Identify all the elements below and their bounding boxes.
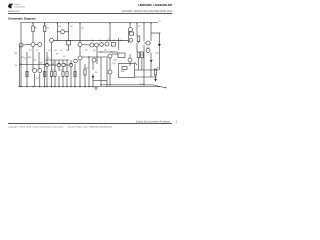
- svg-text:1k: 1k: [108, 38, 110, 40]
- svg-text:R4: R4: [60, 69, 62, 71]
- svg-text:Copyright © 2012–2013, Texas I: Copyright © 2012–2013, Texas Instruments…: [8, 126, 64, 129]
- svg-text:ESD: ESD: [121, 71, 126, 73]
- svg-text:Q8: Q8: [34, 60, 37, 62]
- svg-text:Q4: Q4: [54, 50, 57, 52]
- svg-text:1k: 1k: [138, 26, 140, 28]
- svg-text:Schematic Diagram: Schematic Diagram: [8, 16, 36, 20]
- svg-text:C1: C1: [60, 50, 62, 52]
- svg-text:Q1: Q1: [29, 50, 32, 52]
- svg-text:R8: R8: [157, 68, 159, 70]
- svg-text:D1: D1: [95, 72, 97, 74]
- svg-text:Instruments: Instruments: [14, 5, 25, 8]
- svg-text:R7: R7: [56, 54, 58, 56]
- svg-text:Q9: Q9: [113, 63, 116, 65]
- svg-text:x: x: [46, 24, 47, 26]
- svg-text:B1: B1: [81, 28, 83, 30]
- svg-text:Q13: Q13: [155, 52, 159, 54]
- svg-text:www.ti.com: www.ti.com: [8, 10, 20, 13]
- svg-text:SNOSAW7 –MARCH 2013–REVISED AP: SNOSAW7 –MARCH 2013–REVISED APRIL 2013: [121, 10, 172, 13]
- svg-text:R4: R4: [66, 50, 68, 52]
- svg-text:Q3: Q3: [48, 50, 51, 52]
- svg-text:R7: R7: [87, 68, 89, 70]
- svg-text:GND: GND: [139, 84, 144, 86]
- svg-text:R16: R16: [28, 57, 31, 59]
- svg-text:Q7: Q7: [70, 26, 73, 28]
- svg-text:R2: R2: [47, 28, 49, 30]
- svg-text:Q8: Q8: [100, 52, 103, 54]
- svg-text:Q8: Q8: [104, 50, 107, 52]
- svg-text:R1: R1: [35, 28, 37, 30]
- svg-text:LM2903N, LM2903N-SP: LM2903N, LM2903N-SP: [138, 3, 172, 7]
- svg-text:Product Folder Links: LM2903N: Product Folder Links: LM2903N LM2903N-SP: [68, 126, 113, 129]
- svg-text:Q9: Q9: [40, 62, 43, 64]
- svg-text:Q6: Q6: [93, 50, 96, 52]
- svg-text:Q5: Q5: [85, 50, 88, 52]
- svg-text:R15: R15: [21, 57, 24, 59]
- svg-text:Q3: Q3: [25, 58, 28, 60]
- svg-text:R3: R3: [53, 69, 55, 71]
- svg-text:C1: C1: [52, 61, 54, 63]
- svg-text:C2: C2: [63, 56, 65, 58]
- svg-text:R6: R6: [47, 57, 49, 59]
- svg-text:R10: R10: [110, 51, 113, 53]
- svg-text:R9: R9: [141, 55, 143, 57]
- svg-text:Q2: Q2: [36, 50, 39, 52]
- svg-text:Q11: Q11: [146, 48, 149, 50]
- svg-text:R3: R3: [59, 26, 61, 28]
- svg-text:Q12: Q12: [113, 59, 117, 61]
- svg-text:Q4: Q4: [36, 78, 39, 80]
